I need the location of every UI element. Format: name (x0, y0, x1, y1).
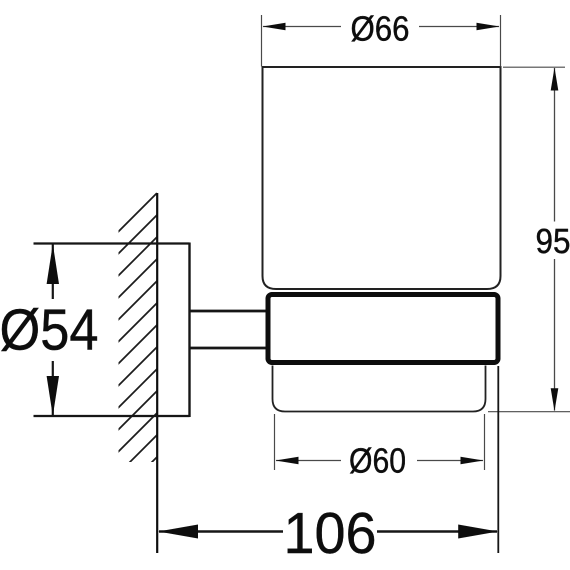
svg-text:Ø54: Ø54 (0, 298, 99, 363)
glass upper body (263, 67, 501, 289)
dimension 95 right (488, 67, 570, 412)
wall line (156, 193, 158, 553)
svg-text:Ø60: Ø60 (349, 442, 406, 481)
mounting plate (34, 243, 190, 418)
svg-text:106: 106 (284, 501, 377, 566)
dimension D54 left (52, 245, 54, 416)
arm (190, 311, 268, 348)
glass lower body (273, 366, 486, 412)
svg-text:Ø66: Ø66 (351, 9, 410, 48)
dimension D66 top (262, 15, 501, 67)
dimension 106 bottom (497, 366, 499, 553)
svg-text:95: 95 (536, 222, 570, 261)
holder ring (268, 295, 498, 363)
dimension D60 bottom (275, 414, 485, 470)
